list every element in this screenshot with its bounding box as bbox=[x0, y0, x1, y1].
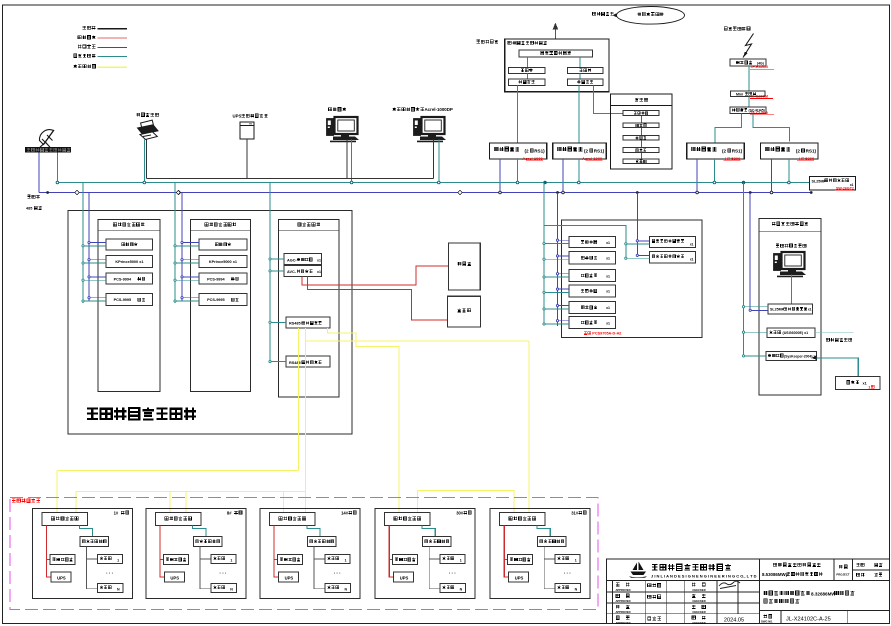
title signatures col2 bbox=[648, 584, 651, 587]
red note under mc devices bbox=[584, 332, 587, 335]
wire teal gateway to right router bbox=[579, 57, 581, 68]
svg-text:HT-5800: HT-5800 bbox=[725, 156, 741, 161]
box AGC remote device bbox=[284, 254, 322, 265]
enclosure PV prefabricated secondary cabin bbox=[68, 210, 352, 434]
wire teal converter to gateway4 bbox=[753, 113, 789, 141]
icon UPS box bbox=[240, 122, 254, 139]
box inverter N bbox=[98, 584, 124, 593]
wire teal router to encryption right bbox=[579, 74, 581, 80]
wire teal stub device 2 bbox=[175, 262, 199, 264]
wire red drop from acquisition bbox=[274, 526, 279, 578]
box wireless router 4G bbox=[730, 59, 766, 66]
box security device 5 bbox=[623, 159, 659, 164]
wire teal gateway2b to bus bbox=[788, 159, 790, 183]
box firewall USG x1 bbox=[767, 328, 815, 338]
small arrow into cloud bbox=[613, 13, 617, 17]
box protection device 1 bbox=[199, 239, 247, 250]
wire yellow V5b to G5 entry2 bbox=[528, 341, 530, 513]
svg-text:RS1): RS1) bbox=[594, 149, 605, 154]
svg-text:x1: x1 bbox=[606, 290, 610, 294]
box local data acquisition device bbox=[385, 513, 431, 526]
box multifunction meter bbox=[393, 555, 418, 565]
wire teal stub mc 6 bbox=[544, 323, 569, 325]
up arrow to dispatch network bbox=[554, 28, 556, 40]
box security device 4 bbox=[623, 148, 659, 153]
svg-text:1#: 1# bbox=[114, 510, 119, 515]
wire teal stub to switch bbox=[744, 306, 769, 308]
svg-text:x1: x1 bbox=[317, 270, 321, 274]
wire blue gateway2a to bus bbox=[696, 159, 698, 193]
box security device 1 bbox=[623, 111, 659, 116]
junction dots teal bus drops bbox=[544, 181, 547, 184]
svg-text:PCS-9995: PCS-9995 bbox=[207, 298, 225, 302]
wire blue stub device 4 bbox=[89, 297, 106, 299]
svg-text:(USG6000E) x1: (USG6000E) x1 bbox=[783, 331, 809, 335]
wire teal gateway to left router bbox=[526, 57, 528, 68]
wire blue stub mc 1 bbox=[558, 239, 570, 241]
label GPS time sync device (dark bar) bbox=[25, 147, 71, 152]
svg-text:8.32686MW: 8.32686MW bbox=[811, 591, 836, 596]
wire yellow H2a distribution bbox=[76, 491, 305, 493]
wire teal encryption-right to firewall column bbox=[594, 86, 624, 114]
wire blue stub protection1 bbox=[637, 240, 649, 242]
svg-text:N: N bbox=[344, 588, 347, 592]
box isolation gateway 1b bbox=[553, 143, 607, 159]
cabinet remote communication box bbox=[505, 39, 609, 92]
svg-text:UPS: UPS bbox=[515, 576, 524, 581]
box inverter 1 bbox=[440, 555, 465, 564]
bus teal fiber ethernet bbox=[57, 182, 809, 184]
wire teal stub device 2 bbox=[83, 262, 106, 264]
box protection device 2 bbox=[106, 256, 153, 268]
panel safety automatic device screen 2 bbox=[190, 219, 250, 391]
box inverter 1 bbox=[211, 555, 236, 564]
logo ship bbox=[629, 562, 647, 578]
svg-text:KPrince5000 x1: KPrince5000 x1 bbox=[115, 260, 143, 264]
wire black drop from collector bbox=[544, 547, 555, 589]
box measurement control device 3 bbox=[569, 269, 616, 281]
box inverter 1 bbox=[325, 555, 350, 564]
svg-text:Acrel-1000: Acrel-1000 bbox=[523, 156, 544, 161]
panel remote communication screen bbox=[279, 219, 339, 397]
box router right bbox=[568, 67, 603, 73]
svg-text:N: N bbox=[460, 588, 463, 592]
wire teal drop to comm panel bbox=[269, 183, 271, 362]
icon computer monitoring host bbox=[327, 117, 360, 142]
box comm gateway 2a bbox=[687, 143, 745, 159]
box reverse isolation SysKeeper x1 bbox=[766, 351, 817, 360]
box UPS small bbox=[509, 572, 529, 582]
wire blue stub device 4 bbox=[182, 297, 199, 299]
svg-text:PROJECT: PROJECT bbox=[836, 573, 850, 577]
box protection device 4 bbox=[199, 294, 247, 306]
legend fiber line sample (teal) bbox=[98, 56, 128, 58]
label wireless public network bbox=[724, 27, 727, 30]
group factory 8# enclosure bbox=[146, 508, 246, 598]
title row labels col1 bbox=[616, 583, 619, 586]
box PV combiner collector bbox=[538, 537, 567, 547]
icon computer power forecast host bbox=[774, 252, 807, 277]
svg-text:RS485: RS485 bbox=[289, 322, 301, 326]
wire red stub to multimeter bbox=[389, 559, 393, 561]
box UPS small bbox=[279, 572, 299, 582]
svg-text:APPROVED: APPROVED bbox=[615, 621, 630, 625]
svg-text:x1: x1 bbox=[606, 257, 610, 261]
svg-text:UPS: UPS bbox=[285, 576, 294, 581]
wire blue dish to 485 bus bbox=[38, 153, 40, 193]
divider stage cell bbox=[852, 559, 854, 581]
wire comp1 black to power bus bbox=[346, 140, 348, 179]
wire teal elbow to line protection boxes bbox=[544, 226, 626, 259]
wire blue gateway1b to bus bbox=[562, 159, 564, 193]
wire teal host to switch bbox=[790, 275, 792, 305]
svg-text:APPROVED: APPROVED bbox=[615, 610, 630, 614]
svg-text:PCS-9995: PCS-9995 bbox=[114, 298, 132, 302]
box PV combiner collector bbox=[193, 537, 222, 547]
svg-text:x1: x1 bbox=[863, 381, 867, 385]
svg-text:Acrel-1000DP: Acrel-1000DP bbox=[425, 107, 453, 112]
svg-text:RS1): RS1) bbox=[806, 149, 817, 154]
wire black drop from collector bbox=[200, 547, 211, 589]
svg-text:APPROVED: APPROVED bbox=[615, 588, 630, 592]
box protection device 1 bbox=[106, 239, 153, 250]
box local data acquisition device bbox=[270, 513, 316, 526]
title block outer bbox=[607, 559, 890, 624]
wire red AVC to DC screen bbox=[302, 266, 448, 285]
box inverter N bbox=[325, 584, 351, 593]
wire red linking column devices bbox=[640, 115, 642, 159]
svg-text:2024.05: 2024.05 bbox=[724, 617, 744, 623]
description text line1 bbox=[763, 591, 767, 595]
big label PV prefabricated secondary cabin bbox=[87, 408, 98, 419]
wire blue stub device 1 bbox=[89, 242, 106, 244]
legend label power line bbox=[83, 26, 86, 29]
signature squiggle bbox=[719, 581, 740, 588]
wire yellow drop G3 entry1 bbox=[283, 492, 285, 514]
wire teal acquisition to PV collector bbox=[537, 526, 550, 537]
description text line2 bbox=[764, 599, 768, 603]
wire teal gateway2a to bus bbox=[713, 159, 715, 183]
wire teal stub AGC bbox=[270, 258, 284, 260]
wire blue gateway1a to bus bbox=[499, 159, 501, 193]
wire teal gateway1b to bus bbox=[578, 159, 580, 183]
svg-text:N: N bbox=[230, 588, 233, 592]
wire teal stub mc 5 bbox=[544, 308, 569, 310]
wire teal drop to panel1 bbox=[82, 183, 84, 304]
legend yellow cable sample bbox=[98, 66, 128, 68]
svg-text:. . .: . . . bbox=[106, 570, 114, 576]
wire teal router to mini switch bbox=[748, 66, 750, 91]
group factory 30# enclosure bbox=[375, 508, 475, 598]
wire teal stub AVC bbox=[270, 270, 284, 272]
icon network printer bbox=[138, 120, 159, 139]
wire black stub to inverter1 bbox=[544, 558, 555, 560]
box protection device 3 bbox=[106, 273, 153, 284]
svg-text:(2: (2 bbox=[796, 149, 801, 154]
wire teal acquisition to PV collector bbox=[422, 526, 435, 537]
title block row lines bbox=[607, 591, 760, 593]
box protection device 4 bbox=[106, 294, 153, 306]
box UPS small bbox=[164, 572, 184, 582]
box UPS small bbox=[394, 572, 414, 582]
svg-text:x1: x1 bbox=[606, 241, 610, 245]
wire teal mini switch to photoelectric bbox=[748, 97, 750, 107]
svg-text:8#: 8# bbox=[227, 510, 232, 515]
box inverter N bbox=[440, 584, 466, 593]
wire teal stub to firewall bbox=[744, 331, 768, 333]
box RS485 ring switch 2 bbox=[286, 356, 330, 367]
wire UPS to power bus bbox=[246, 139, 248, 179]
svg-text:CHECKED: CHECKED bbox=[692, 621, 705, 625]
svg-text:. . .: . . . bbox=[334, 570, 342, 576]
wire red AVC to AC screen bbox=[308, 276, 448, 320]
wire blue left drop forecast panel bbox=[749, 193, 751, 311]
wire yellow drop G1 entry2 bbox=[75, 492, 77, 514]
arrowhead into reverse isolation bbox=[812, 356, 817, 360]
label network printer bbox=[136, 113, 140, 117]
wire teal stub device 1 bbox=[175, 245, 199, 247]
wire teal stub device 4 bbox=[175, 300, 199, 302]
box local data acquisition device bbox=[155, 513, 201, 526]
wire blue stub device 2 bbox=[182, 259, 199, 261]
svg-text:x1: x1 bbox=[606, 274, 610, 278]
box longitudinal encryption left bbox=[509, 79, 545, 86]
svg-text:UPS: UPS bbox=[57, 576, 66, 581]
box PV combiner collector bbox=[80, 537, 109, 547]
svg-text:x1: x1 bbox=[808, 308, 812, 312]
wire yellow H1 distribution bbox=[57, 469, 299, 471]
box multifunction meter bbox=[508, 555, 533, 565]
wire yellow V2 switch1 to G3 bbox=[305, 328, 307, 513]
svg-text:PCS9705A-D-H2: PCS9705A-D-H2 bbox=[592, 332, 621, 336]
wire teal drop to panel2 bbox=[174, 183, 176, 304]
wire teal acquisition to PV collector bbox=[307, 526, 320, 537]
wire teal stub device 3 bbox=[83, 279, 106, 281]
box line protection device 2 bbox=[650, 251, 696, 263]
wire teal stub protection2 bbox=[626, 257, 650, 259]
label power forecast host bbox=[776, 244, 779, 247]
svg-text:14#: 14# bbox=[341, 510, 349, 515]
wire teal drop to mc panel bbox=[543, 183, 545, 325]
wire teal stub device 3 bbox=[175, 279, 199, 281]
wire teal stub mc 3 bbox=[544, 276, 569, 278]
svg-text:x1: x1 bbox=[690, 258, 694, 262]
svg-text:TF-S200M: TF-S200M bbox=[750, 95, 768, 99]
junction donuts blue bus leg terminals bbox=[499, 191, 502, 194]
box SJ25MP switch x1 bbox=[768, 304, 813, 314]
bus black power line bbox=[147, 178, 434, 180]
box AC screen bbox=[448, 296, 481, 327]
box inverter N bbox=[555, 584, 581, 593]
satellite dish GPS time sync bbox=[39, 130, 54, 148]
svg-text:UPS: UPS bbox=[233, 114, 242, 119]
wire printer teal to fiber bus bbox=[143, 140, 145, 183]
lightning bolt symbol bbox=[743, 34, 754, 58]
title block company cell bbox=[607, 580, 890, 582]
box security device 3 bbox=[623, 135, 659, 140]
wire red stub to multimeter bbox=[47, 559, 51, 561]
svg-text:Mini: Mini bbox=[736, 92, 743, 96]
svg-text:x1: x1 bbox=[606, 321, 610, 325]
bus blue RS485 bbox=[39, 192, 811, 194]
title block bottom right row bbox=[759, 610, 889, 612]
label various weather data bbox=[826, 338, 829, 341]
box inverter 1 bbox=[555, 555, 580, 564]
legend label comm line bbox=[78, 36, 81, 39]
box data gateway machine bbox=[519, 50, 593, 57]
wire teal stub switch1 bbox=[270, 321, 286, 323]
svg-text:. . .: . . . bbox=[219, 570, 227, 576]
wire blue drop to panel1 bbox=[88, 193, 90, 302]
svg-text:N: N bbox=[117, 588, 120, 592]
wire teal router to encryption left bbox=[526, 74, 528, 80]
svg-text:RS1): RS1) bbox=[732, 149, 743, 154]
wire black drop from collector bbox=[314, 547, 325, 589]
title block column lines bbox=[611, 581, 613, 624]
box RS485 ring switch 1 bbox=[286, 317, 330, 328]
box multifunction meter bbox=[278, 555, 303, 565]
group factory 14# enclosure bbox=[260, 508, 360, 598]
box inverter 1 bbox=[98, 555, 123, 564]
wire black stub to inverter1 bbox=[200, 558, 211, 560]
svg-text:TF-R300N: TF-R300N bbox=[750, 65, 768, 69]
svg-text:UPS: UPS bbox=[400, 576, 409, 581]
wire blue stub device 3 bbox=[182, 276, 199, 278]
svg-text:HT-5800: HT-5800 bbox=[799, 156, 815, 161]
wire blue stub mc 2 bbox=[558, 255, 570, 257]
wire teal acquisition to PV collector bbox=[193, 526, 206, 537]
wire teal acquisition to PV collector bbox=[79, 526, 92, 537]
project owner cell texts bbox=[773, 563, 776, 566]
wire teal stub to reverse isolation bbox=[744, 355, 766, 357]
svg-text:Acrel-1000: Acrel-1000 bbox=[582, 156, 603, 161]
wire blue stub device 2 bbox=[89, 259, 106, 261]
svg-text:1: 1 bbox=[117, 559, 119, 563]
wire red drop from acquisition bbox=[160, 526, 165, 578]
wire teal reverse isolation to weather station bbox=[817, 358, 859, 377]
label switch bus left bbox=[28, 195, 31, 198]
wire blue gateway2b to bus bbox=[771, 159, 773, 193]
svg-text:AGC-: AGC- bbox=[287, 258, 297, 262]
box multifunction meter bbox=[163, 555, 188, 565]
wire red drop from acquisition bbox=[504, 526, 509, 578]
box router left bbox=[509, 67, 545, 73]
wire yellow H2b U segment bbox=[417, 490, 514, 513]
wire teal dish to fiber bus bbox=[56, 153, 58, 183]
box local data acquisition device bbox=[500, 513, 546, 526]
wire comp1 teal to fiber bus bbox=[351, 140, 353, 183]
box PV combiner collector bbox=[423, 537, 452, 547]
box UPS small bbox=[51, 572, 71, 582]
junction donuts teal bus leg terminals bbox=[56, 181, 59, 184]
label power dispatch data network bbox=[477, 40, 480, 43]
wire black stub to inverter1 bbox=[87, 558, 98, 560]
title mid labels col3 bbox=[692, 583, 696, 587]
wire teal encryption-left down to gateway1 bbox=[517, 86, 519, 143]
wire blue drop to panel2 bbox=[181, 193, 183, 302]
svg-text:1: 1 bbox=[868, 385, 870, 389]
label operator host Acrel-1000DP bbox=[392, 107, 396, 111]
wire red stub to multimeter bbox=[274, 559, 278, 561]
dashed boundary metal factory roof area bbox=[10, 497, 598, 609]
wire yellow H3a distribution bbox=[306, 340, 529, 342]
svg-text:x1: x1 bbox=[606, 306, 610, 310]
wire teal converter to gateway3 bbox=[715, 113, 742, 143]
wire blue drop to mc panel bbox=[557, 193, 559, 327]
panel safety automatic device screen 1 bbox=[98, 219, 160, 391]
wire red drop from acquisition bbox=[47, 526, 52, 578]
wire yellow drop G2 entry1 bbox=[169, 492, 171, 514]
panel measurement control box bbox=[561, 220, 702, 338]
svg-text:(2: (2 bbox=[722, 149, 727, 154]
wire yellow V1 switch1 to H1 bbox=[298, 328, 300, 470]
svg-text:1: 1 bbox=[345, 559, 347, 563]
wire red stub to multimeter bbox=[504, 559, 508, 561]
svg-text:(2: (2 bbox=[525, 149, 530, 154]
box measurement control device 5 bbox=[569, 301, 616, 313]
box protection device 3 bbox=[199, 273, 247, 284]
svg-text:485: 485 bbox=[26, 207, 32, 211]
svg-text:x1: x1 bbox=[690, 242, 694, 246]
wire teal left drop forecast panel bbox=[743, 183, 745, 356]
wire black drop from collector bbox=[429, 547, 440, 589]
svg-text:8.53086MWp: 8.53086MWp bbox=[762, 572, 789, 577]
box DC screen bbox=[448, 243, 480, 290]
wire teal gateway1a to bus bbox=[517, 159, 519, 183]
cabinet title text bbox=[508, 41, 511, 44]
wire blue stub device 3 bbox=[89, 276, 106, 278]
box inverter N bbox=[211, 584, 237, 593]
wire thin firewall to weather data bbox=[815, 332, 854, 334]
box PV combiner collector bbox=[308, 537, 337, 547]
box protection device 2 bbox=[199, 256, 247, 268]
svg-text:SL25MP: SL25MP bbox=[812, 180, 827, 184]
panel PV power forecast system screen bbox=[759, 219, 821, 395]
svg-text:J I N L I A N D E S I G N E N: J I N L I A N D E S I G N E N G I N E E … bbox=[651, 574, 757, 579]
svg-text:. . .: . . . bbox=[564, 570, 572, 576]
wire blue stub mc 3 bbox=[558, 273, 570, 275]
wire yellow switch1 right elbow to G4 entry1 bbox=[328, 328, 400, 513]
wire yellow drop G2 entry2 bbox=[185, 492, 187, 514]
divider project cell bbox=[833, 559, 835, 581]
svg-text:PCS-9994: PCS-9994 bbox=[207, 277, 225, 281]
wire yellow drop G1 entry1 bbox=[56, 470, 58, 513]
svg-text:(2: (2 bbox=[584, 149, 589, 154]
box measurement control device 6 bbox=[569, 316, 616, 328]
wire teal stub device 4 bbox=[83, 300, 106, 302]
box weather station bbox=[836, 376, 881, 389]
box photoelectric converter SC-RJ45 bbox=[730, 107, 766, 113]
wire comp2 black to power bus then bend bbox=[433, 140, 435, 179]
svg-text:UPS: UPS bbox=[170, 576, 179, 581]
box measurement control device 1 bbox=[569, 236, 616, 247]
box security device 2 bbox=[623, 123, 659, 128]
panel network security monitoring column bbox=[611, 94, 672, 169]
svg-text:APPROVED: APPROVED bbox=[615, 599, 630, 603]
box measurement control device 2 bbox=[569, 251, 616, 264]
wire printer black to power bus bbox=[146, 140, 148, 179]
red label metal factory area bbox=[12, 499, 15, 502]
legend comm line sample (red) bbox=[98, 37, 128, 39]
wire red stub to multimeter bbox=[160, 559, 164, 561]
label UPS uninterruptible power bbox=[242, 114, 245, 117]
wire teal stub protection1 bbox=[626, 243, 650, 245]
wire red drop from acquisition bbox=[389, 526, 394, 578]
svg-text:CHECKED: CHECKED bbox=[692, 610, 705, 614]
legend power line sample bbox=[98, 28, 128, 30]
svg-text:. . .: . . . bbox=[449, 570, 457, 576]
wire black stub to inverter1 bbox=[429, 558, 440, 560]
